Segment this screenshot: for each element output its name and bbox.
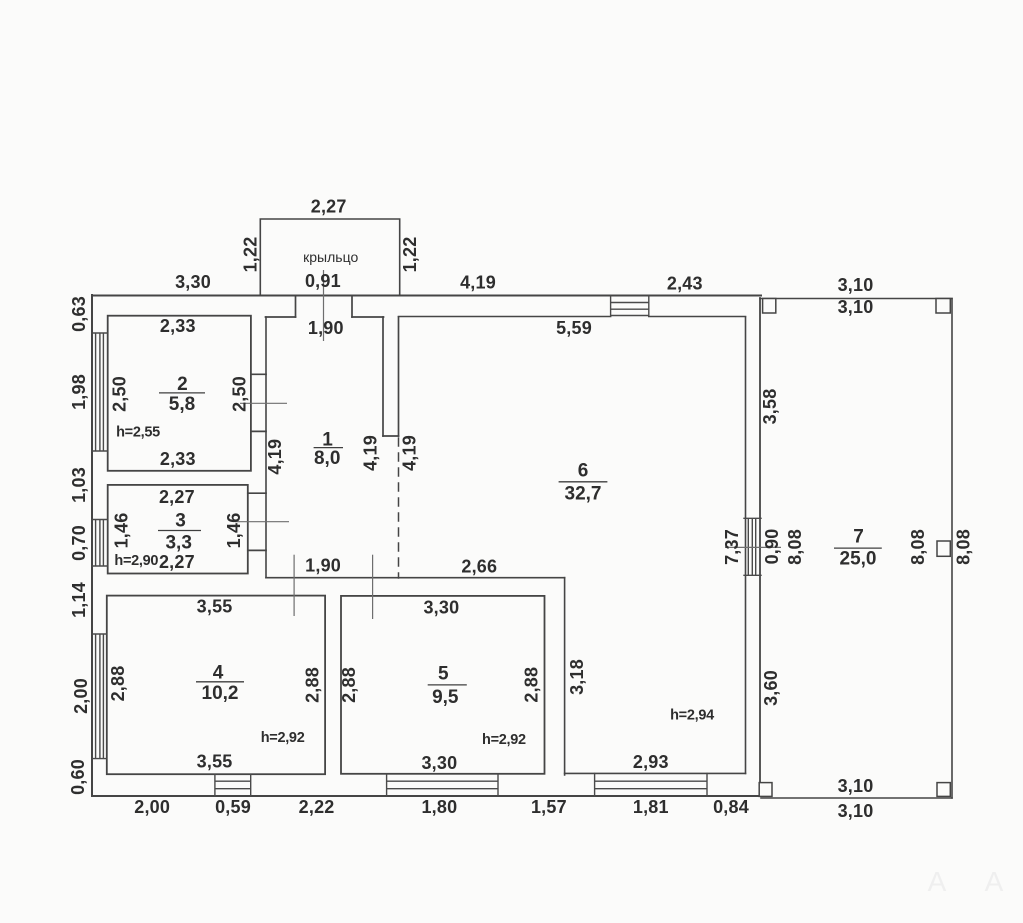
svg-text:8,08: 8,08: [785, 529, 805, 565]
window W3 room4 left wall: [92, 634, 107, 759]
wire wall between room5 and room6: [564, 578, 566, 775]
node porch outline: [260, 219, 399, 295]
svg-text:1,46: 1,46: [112, 513, 132, 549]
svg-text:25,0: 25,0: [840, 549, 877, 570]
svg-text:7,37: 7,37: [722, 529, 742, 565]
svg-text:3,10: 3,10: [838, 275, 874, 295]
node veranda post top left: [763, 299, 776, 314]
wire dimension tick corridor bottom left: [293, 555, 295, 616]
wire corridor room6 wall right line: [398, 317, 400, 436]
svg-text:0,60: 0,60: [68, 759, 88, 795]
node room 4 box: [107, 596, 325, 775]
window divider wall room6 room7: [744, 518, 761, 575]
window W2 room3 left wall: [92, 520, 108, 567]
wire fraction line room7: [834, 547, 882, 549]
node room 2 box: [108, 316, 251, 471]
svg-text:2,66: 2,66: [461, 557, 497, 577]
wire room6 top inner wall right segment: [649, 316, 746, 318]
wire dimension tick divider window: [725, 546, 781, 548]
wire room6 right inner wall line: [745, 317, 747, 774]
wire fraction line room2: [159, 392, 205, 394]
svg-text:1,80: 1,80: [421, 797, 457, 817]
svg-text:2,88: 2,88: [302, 667, 322, 703]
svg-text:1,14: 1,14: [69, 582, 89, 618]
svg-text:h=2,90: h=2,90: [114, 553, 158, 569]
window bottom wall under room4: [215, 774, 251, 796]
wire porch door jamb right: [351, 296, 353, 317]
node room 5 box: [341, 596, 545, 774]
svg-text:крыльцо: крыльцо: [303, 249, 358, 265]
svg-text:3,58: 3,58: [760, 389, 780, 425]
wire corridor left wall: [265, 317, 267, 578]
svg-text:3,60: 3,60: [761, 670, 781, 706]
wire veranda bottom wall: [761, 797, 952, 799]
wire room3 door jamb lower: [248, 549, 266, 551]
svg-text:4,19: 4,19: [460, 273, 496, 293]
svg-text:2,27: 2,27: [311, 197, 347, 217]
svg-text:2,88: 2,88: [108, 666, 128, 702]
wire veranda right wall: [951, 299, 953, 799]
svg-text:32,7: 32,7: [565, 484, 602, 505]
window bottom wall under room5: [387, 774, 498, 796]
svg-text:2,27: 2,27: [159, 487, 195, 507]
svg-text:5,59: 5,59: [556, 318, 592, 338]
svg-text:3,30: 3,30: [175, 272, 211, 292]
svg-text:3,10: 3,10: [838, 776, 874, 796]
svg-text:2,33: 2,33: [160, 449, 196, 469]
wire top outer wall house: [92, 295, 761, 297]
svg-text:0,70: 0,70: [69, 525, 89, 561]
svg-text:4,19: 4,19: [361, 435, 381, 471]
svg-text:9,5: 9,5: [432, 687, 459, 708]
svg-text:4: 4: [213, 663, 224, 684]
wire fraction line room1: [314, 447, 343, 449]
svg-text:2,22: 2,22: [299, 797, 335, 817]
svg-text:0,90: 0,90: [762, 529, 782, 565]
svg-text:3,3: 3,3: [165, 533, 191, 554]
svg-text:3,10: 3,10: [838, 801, 874, 821]
svg-text:1,90: 1,90: [308, 318, 344, 338]
wire right house wall outer line: [759, 298, 761, 796]
wire porch door jamb left: [295, 296, 297, 317]
wire left outer wall: [91, 295, 93, 796]
window W1 room2 left wall: [92, 333, 108, 451]
node veranda post bottom left: [759, 783, 772, 797]
svg-text:h=2,92: h=2,92: [261, 730, 305, 746]
wire room3 door jamb upper: [248, 492, 266, 494]
wire room2 door jamb lower: [251, 430, 266, 432]
svg-text:2,00: 2,00: [134, 797, 170, 817]
wire corridor bottom wall: [266, 577, 565, 579]
wire fraction line room4: [196, 681, 244, 683]
wire fraction line room5: [428, 684, 467, 686]
svg-text:h=2,92: h=2,92: [482, 732, 526, 748]
svg-text:0,59: 0,59: [215, 797, 251, 817]
svg-text:h=2,55: h=2,55: [116, 425, 160, 441]
svg-text:2,88: 2,88: [521, 667, 541, 703]
svg-text:10,2: 10,2: [202, 683, 239, 704]
svg-text:2,50: 2,50: [230, 376, 250, 412]
svg-text:8,0: 8,0: [314, 448, 340, 469]
svg-text:1,46: 1,46: [224, 513, 244, 549]
svg-text:1,03: 1,03: [69, 467, 89, 503]
svg-text:2,27: 2,27: [159, 552, 195, 572]
svg-text:3,55: 3,55: [197, 752, 233, 772]
wire corridor room6 wall left line: [382, 317, 384, 436]
wire room2 door jamb upper: [251, 373, 266, 375]
wire corridor top inner wall left segment: [266, 316, 296, 318]
node veranda post bottom right: [937, 783, 950, 797]
wire veranda top wall: [760, 298, 952, 300]
svg-text:1,22: 1,22: [241, 237, 261, 273]
svg-text:6: 6: [578, 461, 589, 482]
node veranda post top right: [936, 299, 950, 314]
svg-text:0,63: 0,63: [69, 296, 89, 332]
svg-text:8,08: 8,08: [954, 529, 974, 565]
svg-text:2,00: 2,00: [71, 678, 91, 714]
svg-text:1,81: 1,81: [633, 797, 669, 817]
wire dimension tick room2 door: [240, 402, 287, 404]
wire corridor room6 wall bottom cap: [383, 435, 399, 437]
node room 3 box: [108, 485, 248, 574]
wire fraction line room3: [158, 530, 201, 532]
svg-text:3: 3: [175, 511, 186, 532]
wire dashed opening boundary room1 room6: [398, 438, 400, 578]
wire room6 top inner wall left segment: [399, 316, 611, 318]
wire porch door position tick: [323, 270, 325, 341]
wire fraction line room6: [559, 481, 608, 483]
svg-text:2: 2: [177, 374, 188, 395]
svg-text:2,43: 2,43: [667, 274, 703, 294]
svg-text:4,19: 4,19: [265, 439, 285, 475]
svg-text:2,50: 2,50: [110, 376, 130, 412]
svg-text:2,88: 2,88: [339, 667, 359, 703]
svg-text:1,98: 1,98: [69, 374, 89, 410]
wire dimension tick room3 door: [235, 521, 289, 523]
svg-text:h=2,94: h=2,94: [670, 708, 714, 724]
svg-text:3,10: 3,10: [838, 297, 874, 317]
svg-text:2,33: 2,33: [160, 316, 196, 336]
svg-text:А: А: [985, 866, 1004, 897]
svg-text:0,91: 0,91: [305, 271, 341, 291]
svg-text:1,90: 1,90: [305, 556, 341, 576]
node veranda post mid right: [937, 541, 950, 556]
wire room6 bottom inner wall: [565, 772, 746, 774]
wire corridor top inner wall right segment: [352, 316, 384, 318]
window bottom wall under room6: [595, 773, 707, 796]
svg-text:8,08: 8,08: [908, 529, 928, 565]
svg-text:3,55: 3,55: [197, 597, 233, 617]
svg-text:3,30: 3,30: [423, 598, 459, 618]
svg-text:7: 7: [853, 527, 864, 548]
svg-text:4,19: 4,19: [399, 435, 419, 471]
svg-text:3,30: 3,30: [421, 753, 457, 773]
svg-text:1,57: 1,57: [531, 797, 567, 817]
svg-text:0,84: 0,84: [713, 797, 749, 817]
svg-text:3,18: 3,18: [567, 659, 587, 695]
window top wall room6: [611, 296, 649, 316]
svg-text:2,93: 2,93: [633, 752, 669, 772]
wire bottom outer wall house: [92, 795, 761, 797]
svg-text:5: 5: [438, 664, 449, 685]
svg-text:А: А: [928, 866, 947, 897]
wire dimension tick corridor bottom right: [372, 555, 374, 619]
svg-text:1,22: 1,22: [400, 237, 420, 273]
svg-text:5,8: 5,8: [169, 394, 195, 415]
